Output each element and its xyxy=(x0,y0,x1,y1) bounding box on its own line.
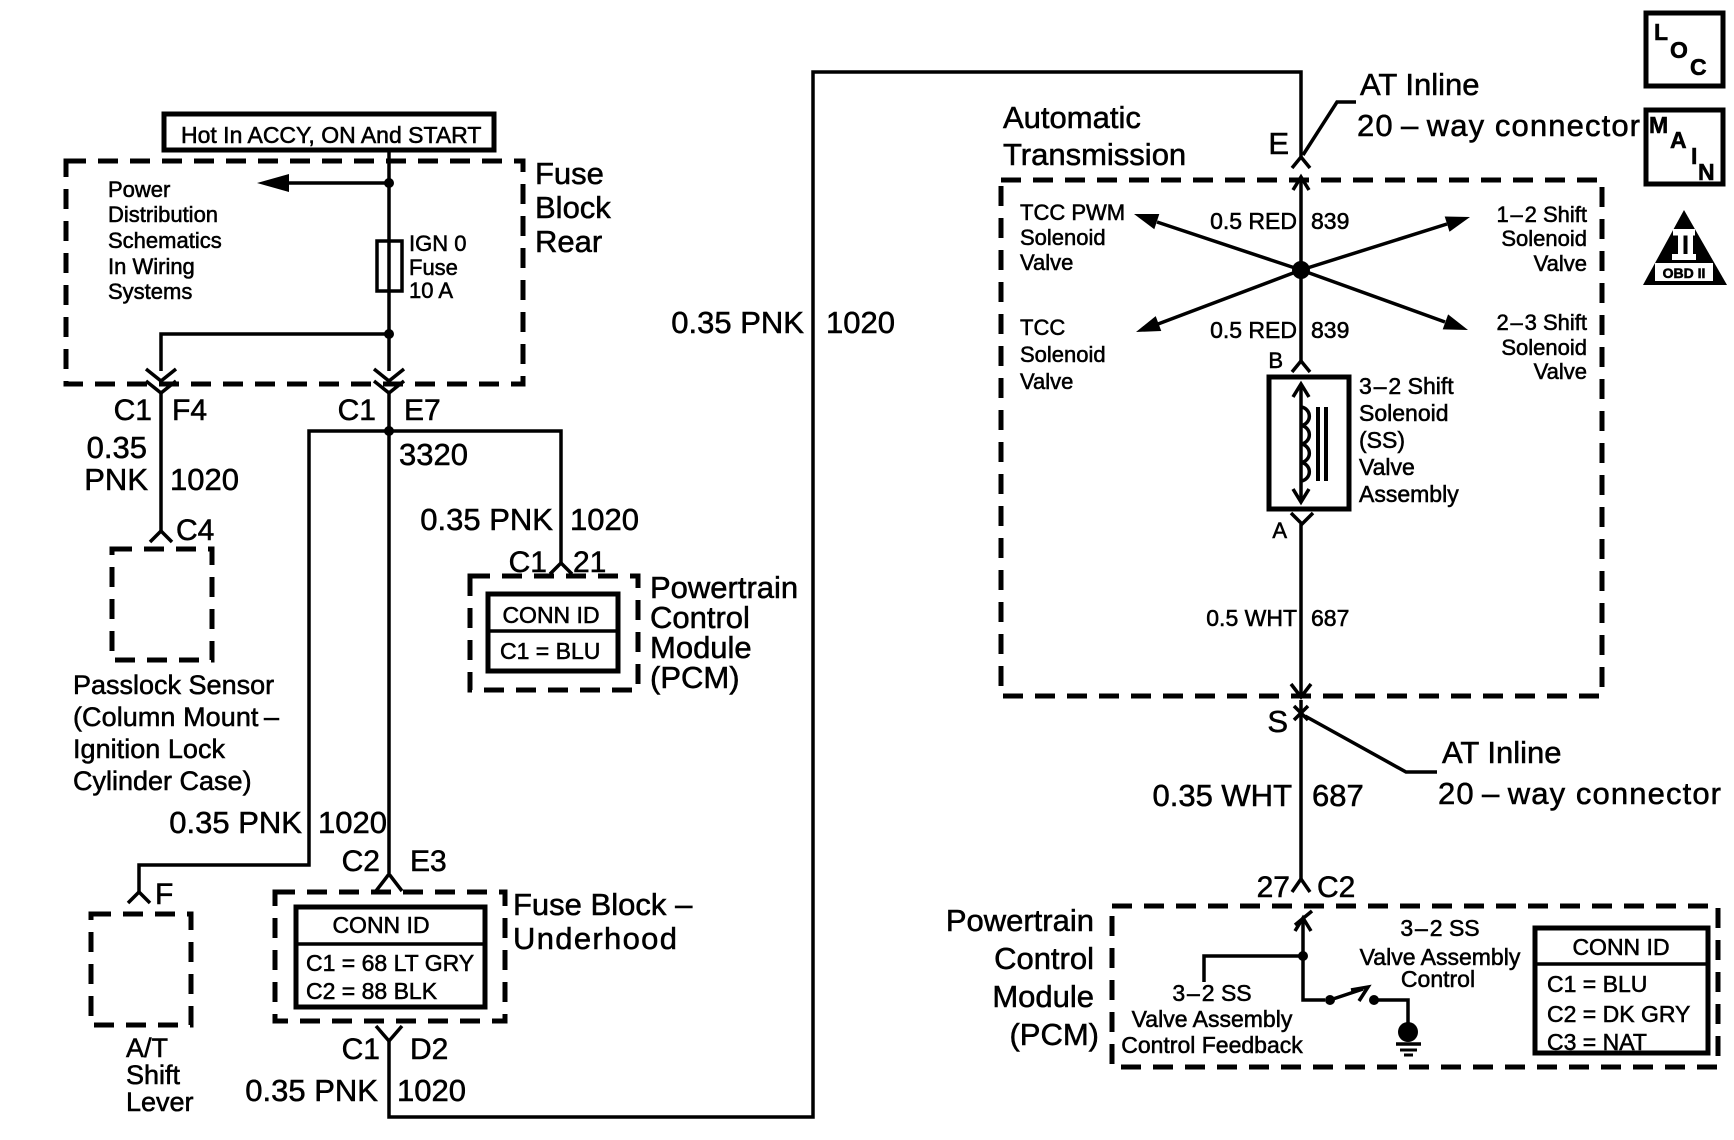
node E7 split xyxy=(384,426,394,436)
switch pivot node xyxy=(1325,995,1335,1005)
svg-text:20 – way connector: 20 – way connector xyxy=(1438,776,1721,811)
svg-text:(PCM): (PCM) xyxy=(650,660,740,695)
svg-text:Power: Power xyxy=(108,177,170,202)
PCM lower (dashed block) xyxy=(1112,906,1718,1067)
solenoid assembly box xyxy=(1269,377,1349,509)
svg-text:1020: 1020 xyxy=(570,502,639,537)
svg-text:0.35: 0.35 xyxy=(87,430,147,465)
svg-text:1020: 1020 xyxy=(318,805,387,840)
connector F (chevron) xyxy=(128,892,150,903)
ground symbol xyxy=(1398,1022,1418,1042)
svg-text:F: F xyxy=(155,878,173,911)
node below fuse xyxy=(384,329,394,339)
svg-text:0.5 WHT: 0.5 WHT xyxy=(1206,605,1297,631)
svg-text:A: A xyxy=(1670,127,1687,153)
wire F4 to C4 xyxy=(159,393,163,531)
svg-text:O: O xyxy=(1670,37,1688,63)
solenoid coil winding with arrows xyxy=(1299,384,1303,502)
node PCM splice xyxy=(1298,951,1308,961)
svg-text:10 A: 10 A xyxy=(409,278,453,303)
LOC icon xyxy=(1646,13,1723,86)
svg-text:20 – way connector: 20 – way connector xyxy=(1357,108,1640,143)
svg-text:3 – 2 SS: 3 – 2 SS xyxy=(1172,980,1251,1006)
svg-text:Cylinder Case): Cylinder Case) xyxy=(73,766,252,796)
connector E (female chevron) xyxy=(1292,157,1310,168)
CONN ID table (PCM upper) xyxy=(488,594,618,671)
PCM upper (dashed block) xyxy=(470,576,638,690)
CONN ID table (PCM lower) xyxy=(1535,928,1708,1053)
svg-text:1020: 1020 xyxy=(170,462,239,497)
svg-text:Valve: Valve xyxy=(1534,359,1587,384)
svg-text:C2 = 88 BLK: C2 = 88 BLK xyxy=(306,978,438,1004)
svg-text:TCC: TCC xyxy=(1020,315,1065,340)
svg-text:687: 687 xyxy=(1311,605,1349,631)
wire from hot feed to fuse xyxy=(387,150,391,334)
svg-text:E3: E3 xyxy=(410,845,447,878)
wire S to PCM 27 xyxy=(1299,700,1303,879)
svg-text:0.5 RED: 0.5 RED xyxy=(1210,208,1297,234)
svg-text:E: E xyxy=(1268,126,1289,161)
svg-text:B: B xyxy=(1268,348,1283,373)
svg-text:Solenoid: Solenoid xyxy=(1020,225,1106,250)
svg-text:0.35 WHT: 0.35 WHT xyxy=(1152,778,1292,813)
pointer line AT Inline (top) xyxy=(1303,102,1356,155)
wire arrow to 1-2 shift solenoid valve xyxy=(1301,224,1447,270)
svg-text:C: C xyxy=(1690,54,1707,80)
wire arrow to TCC PWM solenoid valve xyxy=(1157,222,1301,270)
OBD II icon xyxy=(1643,210,1727,285)
svg-text:N: N xyxy=(1698,159,1715,185)
svg-text:Underhood: Underhood xyxy=(513,921,677,956)
power feed box "Hot In ACCY, ON And START" xyxy=(164,114,494,150)
svg-text:C1: C1 xyxy=(114,394,152,427)
svg-text:TCC PWM: TCC PWM xyxy=(1020,200,1125,225)
svg-text:1 – 2 Shift: 1 – 2 Shift xyxy=(1496,202,1587,227)
svg-text:27: 27 xyxy=(1257,871,1290,904)
svg-text:C3 = NAT: C3 = NAT xyxy=(1547,1029,1647,1055)
svg-text:C2 = DK GRY: C2 = DK GRY xyxy=(1547,1001,1690,1027)
svg-text:C1: C1 xyxy=(342,1033,380,1066)
switch contact node xyxy=(1369,995,1379,1005)
svg-text:F4: F4 xyxy=(172,394,207,427)
svg-text:AT Inline: AT Inline xyxy=(1360,67,1479,102)
svg-text:0.35 PNK: 0.35 PNK xyxy=(245,1073,378,1108)
fuse IGN 0 Fuse 10 A xyxy=(377,241,402,291)
svg-text:In Wiring: In Wiring xyxy=(108,254,195,279)
svg-text:Control Feedback: Control Feedback xyxy=(1121,1032,1303,1058)
connector 21 (chevron) xyxy=(550,563,572,574)
svg-text:A/T: A/T xyxy=(126,1033,168,1063)
connector C1 D2 (chevron) xyxy=(376,1026,402,1041)
svg-text:Solenoid: Solenoid xyxy=(1501,335,1587,360)
svg-text:Automatic: Automatic xyxy=(1003,100,1141,135)
svg-text:Systems: Systems xyxy=(108,279,192,304)
svg-text:A: A xyxy=(1272,518,1287,543)
wire contact to ground xyxy=(1374,1000,1408,1023)
svg-text:IGN 0: IGN 0 xyxy=(409,231,466,256)
svg-text:0.35 PNK: 0.35 PNK xyxy=(420,502,553,537)
svg-text:S: S xyxy=(1267,704,1288,739)
wire D2 to PCM long run xyxy=(389,72,1301,1117)
svg-text:Solenoid: Solenoid xyxy=(1501,226,1587,251)
svg-text:(PCM): (PCM) xyxy=(1009,1017,1099,1052)
svg-text:1020: 1020 xyxy=(826,305,895,340)
svg-text:D2: D2 xyxy=(410,1033,448,1066)
svg-text:C1 = 68 LT GRY: C1 = 68 LT GRY xyxy=(306,950,474,976)
svg-text:3 – 2 SS: 3 – 2 SS xyxy=(1400,915,1479,941)
svg-text:Rear: Rear xyxy=(535,224,602,259)
connector S (arrow + tick) xyxy=(1291,684,1311,697)
svg-text:CONN ID: CONN ID xyxy=(502,602,599,628)
svg-text:Control: Control xyxy=(994,941,1094,976)
svg-text:CONN ID: CONN ID xyxy=(332,912,429,938)
svg-text:C1 = BLU: C1 = BLU xyxy=(1547,971,1647,997)
svg-text:1020: 1020 xyxy=(397,1073,466,1108)
svg-text:OBD II: OBD II xyxy=(1663,265,1706,281)
svg-text:839: 839 xyxy=(1311,317,1349,343)
svg-text:Shift: Shift xyxy=(126,1060,181,1090)
svg-text:Solenoid: Solenoid xyxy=(1020,342,1106,367)
svg-text:C2: C2 xyxy=(1317,871,1355,904)
svg-text:L: L xyxy=(1654,19,1668,45)
svg-text:Fuse: Fuse xyxy=(535,156,604,191)
svg-text:0.5 RED: 0.5 RED xyxy=(1210,317,1297,343)
pointer line AT Inline (bottom) xyxy=(1305,716,1437,772)
svg-text:Valve: Valve xyxy=(1359,454,1415,480)
wire branch to passlock F xyxy=(139,431,389,892)
svg-text:Module: Module xyxy=(992,979,1094,1014)
svg-text:(Column Mount –: (Column Mount – xyxy=(73,702,279,732)
svg-text:Powertrain: Powertrain xyxy=(946,903,1094,938)
svg-text:0.35 PNK: 0.35 PNK xyxy=(169,805,302,840)
svg-text:3 – 2 Shift: 3 – 2 Shift xyxy=(1359,373,1454,399)
svg-text:Solenoid: Solenoid xyxy=(1359,400,1449,426)
svg-text:Ignition Lock: Ignition Lock xyxy=(73,734,226,764)
connector C2 E3 (chevron) xyxy=(376,874,402,891)
A/T shift lever (dashed block) xyxy=(91,914,191,1025)
svg-text:Lever: Lever xyxy=(126,1087,194,1117)
fuse block rear (dashed block) xyxy=(66,161,523,384)
svg-text:Passlock Sensor: Passlock Sensor xyxy=(73,670,274,700)
svg-text:Control: Control xyxy=(1401,966,1475,992)
switch blade with arrow xyxy=(1330,989,1363,1000)
svg-text:C1 = BLU: C1 = BLU xyxy=(500,638,600,664)
svg-text:CONN ID: CONN ID xyxy=(1572,934,1669,960)
svg-text:AT Inline: AT Inline xyxy=(1442,735,1561,770)
svg-text:I: I xyxy=(1691,143,1697,169)
svg-text:687: 687 xyxy=(1312,778,1364,813)
svg-text:C1: C1 xyxy=(338,394,376,427)
svg-text:Fuse Block –: Fuse Block – xyxy=(513,887,693,922)
wire to switch pivot xyxy=(1303,956,1325,1000)
svg-text:Valve Assembly: Valve Assembly xyxy=(1132,1006,1293,1032)
svg-text:Assembly: Assembly xyxy=(1359,481,1459,507)
svg-text:2 – 3 Shift: 2 – 3 Shift xyxy=(1496,310,1587,335)
svg-text:Block: Block xyxy=(535,190,611,225)
wire stub to feedback xyxy=(1204,956,1303,982)
svg-text:Hot In ACCY, ON And START: Hot In ACCY, ON And START xyxy=(181,122,481,148)
svg-text:839: 839 xyxy=(1311,208,1349,234)
connector 27 C2 (chevron) xyxy=(1292,879,1310,892)
wire down through E7 xyxy=(387,334,391,371)
svg-text:Valve: Valve xyxy=(1020,369,1073,394)
fuse block underhood (dashed block) xyxy=(275,892,505,1021)
svg-text:Fuse: Fuse xyxy=(409,255,458,280)
node solenoid feed splice xyxy=(1292,261,1310,279)
connector A (chevron) xyxy=(1291,513,1313,524)
svg-text:3320: 3320 xyxy=(399,437,468,472)
solenoid core bars xyxy=(1316,407,1320,481)
automatic transmission (dashed block) xyxy=(1001,180,1602,696)
passlock sensor (dashed block) xyxy=(112,549,212,660)
svg-text:Valve: Valve xyxy=(1534,251,1587,276)
wire E into transmission (male arrow) xyxy=(1299,177,1303,361)
connector B (chevron) xyxy=(1292,361,1310,372)
node junction at feed arrow xyxy=(384,178,394,188)
svg-text:(SS): (SS) xyxy=(1359,427,1405,453)
svg-text:C2: C2 xyxy=(342,845,380,878)
connector C4 (chevron) xyxy=(150,531,172,542)
svg-text:Distribution: Distribution xyxy=(108,202,218,227)
wire E7 down to E3 xyxy=(387,393,391,873)
svg-text:C4: C4 xyxy=(176,514,214,547)
wire arrow to power distribution xyxy=(287,181,389,185)
CONN ID table (fuse block underhood) xyxy=(296,907,485,1007)
wire into PCM (male arrow + tick) xyxy=(1301,918,1305,956)
svg-text:0.35 PNK: 0.35 PNK xyxy=(671,305,804,340)
svg-text:Valve: Valve xyxy=(1020,250,1073,275)
wire A to S xyxy=(1299,524,1303,697)
MAIN icon xyxy=(1646,110,1723,184)
wire arrow to TCC solenoid valve xyxy=(1158,270,1301,324)
connector C1 E7 (double chevron) xyxy=(374,369,404,381)
wire branch left inside fuse block xyxy=(161,334,389,371)
wire arrow to 2-3 shift solenoid valve xyxy=(1301,270,1445,322)
svg-text:PNK: PNK xyxy=(84,462,148,497)
svg-text:Transmission: Transmission xyxy=(1003,137,1186,172)
wire branch to PCM 21 xyxy=(389,431,561,563)
svg-text:Schematics: Schematics xyxy=(108,228,222,253)
svg-text:M: M xyxy=(1649,112,1668,138)
svg-text:E7: E7 xyxy=(404,394,441,427)
connector C1 F4 (double chevron) xyxy=(146,369,176,381)
